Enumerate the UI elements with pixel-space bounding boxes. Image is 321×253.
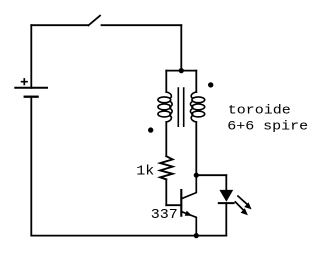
- resistor R1 zigzag: [160, 156, 172, 179]
- transformer phase dot right: [208, 82, 213, 87]
- transistor Q1 emitter: [181, 212, 196, 236]
- transformer T1 primary winding (left): [158, 92, 172, 122]
- transistor Q1 base bar: [180, 190, 182, 216]
- transformer T1 secondary winding (right): [190, 92, 204, 122]
- battery B1 plus sign: [22, 79, 27, 84]
- LED D1 triangle: [219, 190, 233, 202]
- transistor Q1 emitter arrow: [185, 211, 193, 216]
- svg-text:6+6 spire: 6+6 spire: [227, 119, 308, 134]
- LED light arrow upper: [238, 196, 247, 204]
- wire top-left horizontal (battery + to switch): [31, 24, 88, 26]
- transformer phase dot left: [148, 127, 153, 132]
- wire resistor bottom down: [165, 179, 167, 205]
- wire base horizontal: [166, 204, 181, 206]
- svg-text:337: 337: [151, 207, 178, 222]
- wire LED cathode down: [225, 203, 227, 236]
- node collector junction: [194, 173, 199, 178]
- wire collector node to LED: [196, 174, 226, 176]
- svg-text:toroide: toroide: [228, 103, 291, 118]
- node emitter bottom junction: [194, 233, 199, 238]
- wire right winding down to collector node: [195, 122, 197, 175]
- wire transformer top bar: [166, 70, 196, 72]
- svg-text:1k: 1k: [136, 164, 154, 180]
- battery B1 positive plate: [15, 87, 47, 89]
- transformer T1 core lines: [178, 88, 183, 126]
- wire left winding lead down: [165, 71, 167, 92]
- wire right vertical (top wire down to transformer): [180, 25, 182, 70]
- wire bottom horizontal: [31, 235, 226, 237]
- wire left vertical (top wire down to battery +): [30, 25, 32, 88]
- wire battery - down to bottom wire: [30, 97, 32, 236]
- wire switch to top-right corner: [102, 24, 182, 26]
- LED light arrow lower: [235, 202, 243, 210]
- wire left winding to resistor: [165, 122, 167, 156]
- wire right winding lead down: [195, 71, 197, 92]
- battery B1 negative plate: [25, 96, 38, 98]
- switch S1 blade: [88, 16, 100, 26]
- transistor Q1 collector: [181, 175, 196, 199]
- LED D1 cathode bar: [219, 202, 234, 204]
- node transformer top junction: [179, 68, 184, 73]
- wire LED anode lead: [225, 175, 227, 190]
